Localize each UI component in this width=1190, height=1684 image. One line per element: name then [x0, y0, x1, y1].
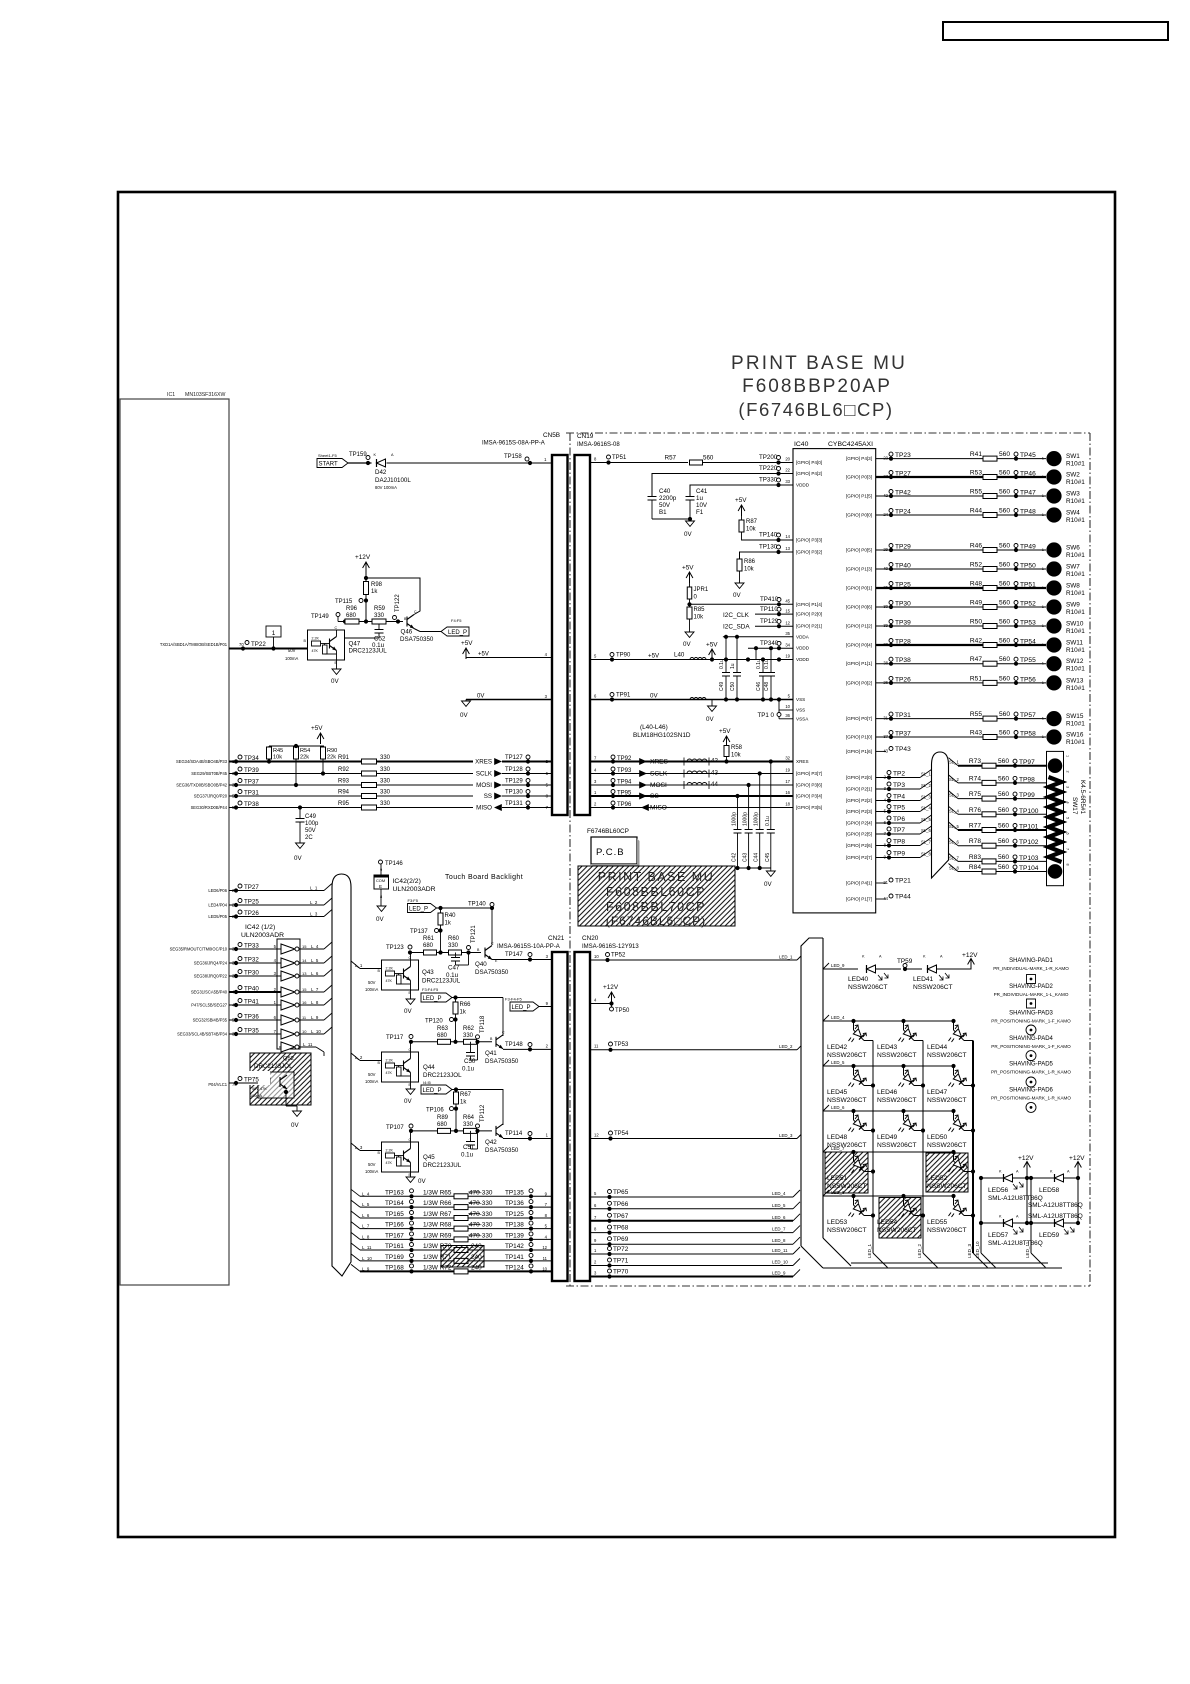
- svg-text:C51: C51: [463, 1144, 475, 1151]
- svg-text:C41: C41: [696, 488, 708, 495]
- svg-text:SCLK: SCLK: [476, 771, 493, 778]
- svg-text:LED_11: LED_11: [772, 1248, 788, 1253]
- LED LED46 NSSW206CT (diagonal): [901, 1064, 905, 1068]
- svg-text:LED_6: LED_6: [831, 1105, 845, 1110]
- svg-text:L_7: L_7: [362, 1224, 370, 1229]
- ground 0V below Q52: [293, 1111, 302, 1116]
- svg-text:TP49: TP49: [1020, 544, 1036, 551]
- svg-text:TP38: TP38: [895, 657, 911, 664]
- svg-text:TP53: TP53: [614, 1042, 629, 1048]
- svg-text:TP33: TP33: [244, 943, 259, 950]
- svg-text:ULN2003ADR: ULN2003ADR: [241, 932, 284, 939]
- row L_10: resistor 1/3W R71 to CN21 pin 11: [351, 1254, 360, 1261]
- svg-text:TP51: TP51: [612, 455, 627, 461]
- svg-text:15: 15: [785, 608, 790, 613]
- svg-text:1k: 1k: [445, 921, 452, 927]
- svg-text:45: 45: [785, 599, 790, 604]
- switch SW2 R10#1: [1046, 469, 1061, 484]
- svg-text:IMSA-9616S-08: IMSA-9616S-08: [577, 442, 620, 448]
- svg-text:43: 43: [711, 770, 718, 777]
- svg-text:TP122: TP122: [395, 594, 401, 612]
- svg-text:15: 15: [302, 944, 307, 949]
- svg-text:C40: C40: [659, 488, 671, 495]
- LED row LED_6: [823, 1105, 829, 1111]
- svg-text:TP103: TP103: [1019, 855, 1039, 862]
- svg-text:Q52: Q52: [283, 1056, 294, 1062]
- emission arrows of LED42: [855, 1025, 867, 1037]
- svg-text:10k: 10k: [744, 567, 755, 573]
- svg-text:C: C: [409, 1138, 412, 1142]
- svg-text:SEG30/RXD0B/P44: SEG30/RXD0B/P44: [191, 805, 228, 810]
- svg-text:NSSW206CT: NSSW206CT: [877, 1142, 917, 1149]
- capacitor C52 0.1u: [378, 624, 380, 629]
- svg-text:470-330: 470-330: [469, 1222, 493, 1229]
- stub L_3 from bus to Q45: [351, 1143, 360, 1151]
- svg-text:330: 330: [380, 767, 391, 773]
- svg-text:TP110: TP110: [760, 606, 778, 613]
- ground 0V below Q47: [336, 660, 338, 669]
- emission arrows of LED51: [855, 1156, 867, 1168]
- row L_8: resistor 1/3W R69 to CN21 pin 4: [351, 1232, 360, 1239]
- svg-text:+5V: +5V: [706, 642, 718, 649]
- svg-text:L_10: L_10: [311, 1029, 321, 1034]
- svg-text:Q43: Q43: [422, 969, 434, 976]
- svg-text:TP70: TP70: [613, 1269, 629, 1276]
- svg-text:0V: 0V: [706, 716, 714, 723]
- svg-text:TP148: TP148: [505, 1042, 523, 1048]
- svg-text:TP142: TP142: [505, 1243, 524, 1250]
- svg-text:[GPIO] P2[3]: [GPIO] P2[3]: [846, 809, 872, 814]
- svg-text:SHAVING-PAD4: SHAVING-PAD4: [1009, 1036, 1053, 1042]
- switch SW4 R10#1: [1046, 507, 1061, 522]
- svg-text:TP93: TP93: [617, 768, 632, 774]
- svg-text:44: 44: [883, 896, 888, 901]
- svg-text:R90: R90: [327, 748, 337, 754]
- row SL_3: resistor R75 560 TP99 to SW17 pin 3: [949, 791, 959, 799]
- svg-text:47K: 47K: [386, 1071, 393, 1075]
- resistor R85 10k: [689, 604, 691, 607]
- svg-text:560: 560: [998, 775, 1009, 782]
- wire CN19 pin 8 TP51 to R57: [590, 462, 688, 464]
- svg-text:F6746BL60CP: F6746BL60CP: [587, 828, 629, 835]
- svg-text:SL_7: SL_7: [949, 855, 959, 860]
- svg-text:R51: R51: [970, 675, 982, 682]
- wire D42 to CN5B pin 1: [387, 462, 553, 464]
- svg-text:C43: C43: [743, 853, 749, 862]
- svg-text:1/3W R69: 1/3W R69: [423, 1232, 452, 1239]
- svg-text:50V: 50V: [305, 828, 316, 834]
- svg-text:1/3W R67: 1/3W R67: [423, 1211, 452, 1218]
- svg-text:14: 14: [302, 958, 307, 963]
- svg-text:ULN2003ADR: ULN2003ADR: [393, 886, 436, 893]
- svg-text:IMSA-9615S-08A-PP-A: IMSA-9615S-08A-PP-A: [482, 441, 545, 447]
- LED58 SML-A12U8TT86Q: [1029, 1176, 1033, 1180]
- svg-text:R10#1: R10#1: [1066, 628, 1085, 635]
- svg-text:SHAVING-PAD2: SHAVING-PAD2: [1009, 984, 1053, 990]
- svg-text:NSSW206CT: NSSW206CT: [927, 1183, 967, 1190]
- svg-text:TP34: TP34: [244, 755, 259, 762]
- svg-text:SL_4: SL_4: [949, 808, 959, 813]
- svg-text:1/3W R66: 1/3W R66: [423, 1200, 452, 1207]
- svg-text:Q40: Q40: [475, 961, 487, 968]
- svg-text:TP410: TP410: [760, 596, 779, 603]
- wire START to D42: [348, 462, 372, 464]
- svg-text:TP6: TP6: [893, 816, 905, 823]
- svg-text:SW6: SW6: [1066, 545, 1080, 552]
- svg-text:LED51: LED51: [827, 1175, 847, 1182]
- svg-text:TP104: TP104: [1019, 865, 1039, 872]
- svg-text:SEG34/SDA4B/SBO4B/P33: SEG34/SDA4B/SBO4B/P33: [176, 759, 228, 764]
- svg-text:22k: 22k: [327, 755, 336, 761]
- svg-text:1000p: 1000p: [754, 812, 760, 826]
- svg-text:680: 680: [423, 943, 434, 949]
- svg-text:TP7: TP7: [893, 827, 905, 834]
- svg-text:[GPIO] P2[4]: [GPIO] P2[4]: [846, 821, 872, 826]
- svg-text:LED_6: LED_6: [772, 1215, 786, 1220]
- svg-text:TP2: TP2: [893, 771, 905, 778]
- svg-text:TP139: TP139: [505, 1232, 524, 1239]
- svg-text:[GPIO] P0[2]: [GPIO] P0[2]: [846, 680, 872, 685]
- svg-text:TP32: TP32: [244, 957, 259, 964]
- resistor R67 1k: [455, 1090, 457, 1093]
- svg-text:+12V: +12V: [962, 952, 978, 959]
- svg-text:R48: R48: [970, 581, 982, 588]
- ground 0V below R85: [685, 632, 694, 637]
- svg-text:10: 10: [302, 1029, 307, 1034]
- svg-text:TP43: TP43: [895, 746, 911, 753]
- svg-text:TP96: TP96: [617, 802, 632, 808]
- svg-text:560: 560: [998, 758, 1009, 765]
- column wires drop into bus collector: [873, 1253, 888, 1268]
- svg-text:TP68: TP68: [613, 1225, 629, 1232]
- base row wire channel 2: [411, 1041, 492, 1043]
- svg-text:SL_2: SL_2: [921, 783, 931, 788]
- svg-text:SML-A12U8TT86Q: SML-A12U8TT86Q: [1028, 1213, 1083, 1220]
- testpoint TP21 IC40 pin 21 stub: [876, 882, 886, 884]
- svg-text:TP36: TP36: [244, 1014, 259, 1021]
- svg-text:10: 10: [785, 704, 790, 709]
- row L_11: resistor 1/3W R70 to CN21 pin 12: [351, 1243, 360, 1250]
- dash-dot boundary of PCB region: [566, 432, 1090, 434]
- svg-text:R78: R78: [969, 838, 981, 845]
- svg-text:R94: R94: [338, 790, 350, 796]
- svg-text:LED_5: LED_5: [831, 1060, 845, 1065]
- svg-text:NSSW206CT: NSSW206CT: [827, 1097, 867, 1104]
- svg-text:TP57: TP57: [1020, 712, 1036, 719]
- svg-text:TP1 0: TP1 0: [757, 712, 774, 719]
- svg-text:SEG38/JRQ0/P22: SEG38/JRQ0/P22: [194, 974, 228, 979]
- svg-text:R55: R55: [970, 489, 982, 496]
- svg-text:L_6: L_6: [362, 1213, 370, 1218]
- svg-text:R43: R43: [970, 730, 982, 737]
- svg-text:TP169: TP169: [385, 1254, 404, 1261]
- testpoint TP44 IC40 pin 44 stub: [876, 898, 886, 900]
- svg-text:LED_4: LED_4: [831, 1015, 845, 1020]
- svg-text:100mA: 100mA: [365, 1169, 378, 1174]
- svg-text:560: 560: [999, 543, 1010, 550]
- svg-text:NSSW206CT: NSSW206CT: [848, 984, 888, 991]
- svg-text:L_1: L_1: [355, 963, 363, 968]
- svg-text:TP121: TP121: [471, 925, 477, 943]
- svg-text:22: 22: [785, 468, 790, 473]
- svg-text:50V: 50V: [252, 1087, 259, 1091]
- svg-text:TP168: TP168: [385, 1264, 404, 1271]
- svg-text:SW11: SW11: [1066, 640, 1083, 647]
- svg-text:R66: R66: [460, 1002, 472, 1008]
- digital transistor Q45 DRC2123JUL: [382, 1142, 419, 1172]
- svg-text:Q41: Q41: [485, 1050, 497, 1057]
- wire CN20 pin 3 TP70 to bus LED_9: [590, 1276, 793, 1278]
- svg-text:34: 34: [785, 642, 790, 647]
- emission arrows of LED52: [955, 1156, 967, 1168]
- svg-text:DRC2123JOL: DRC2123JOL: [423, 1072, 462, 1079]
- svg-text:R47: R47: [970, 656, 982, 663]
- svg-text:P.C.B: P.C.B: [596, 847, 625, 858]
- svg-text:560: 560: [999, 638, 1010, 645]
- svg-text:1/3W R68: 1/3W R68: [423, 1222, 452, 1229]
- ground 0V below Q44: [410, 1082, 412, 1089]
- svg-text:TP112: TP112: [480, 1104, 486, 1122]
- svg-text:12: 12: [542, 1245, 547, 1250]
- signal P04/VLC1 IC1 pin 75: [243, 1071, 270, 1085]
- LED LED44 NSSW206CT (diagonal): [951, 1019, 955, 1023]
- svg-text:LED58: LED58: [1039, 1187, 1059, 1194]
- svg-text:Q46: Q46: [401, 629, 413, 636]
- svg-text:TP127: TP127: [505, 755, 523, 761]
- svg-text:[GPIO] P0[4]: [GPIO] P0[4]: [846, 643, 872, 648]
- svg-text:R10#1: R10#1: [1066, 647, 1085, 654]
- emission arrows of LED49: [905, 1115, 917, 1127]
- svg-text:[GPIO] P4[3]: [GPIO] P4[3]: [846, 456, 872, 461]
- svg-text:R50: R50: [970, 619, 982, 626]
- switch SW13 R10#1: [1046, 675, 1061, 690]
- svg-text:LED_8: LED_8: [772, 1238, 786, 1243]
- svg-text:0V: 0V: [684, 531, 692, 538]
- svg-text:LED49: LED49: [877, 1134, 897, 1141]
- svg-text:LED59: LED59: [1039, 1232, 1059, 1239]
- svg-text:P47/SCL5B/SEG27: P47/SCL5B/SEG27: [191, 1003, 227, 1008]
- svg-text:R73: R73: [969, 758, 981, 765]
- svg-text:XRES: XRES: [650, 759, 669, 766]
- bus: touch board backlight bus (vertical): [332, 874, 351, 1276]
- svg-text:SEG35/RMOUTC/TM0IOC/P10: SEG35/RMOUTC/TM0IOC/P10: [170, 947, 228, 952]
- buffer gate L_7: [281, 987, 295, 997]
- svg-text:L_2: L_2: [355, 1055, 363, 1060]
- svg-text:PRINT BASE MU: PRINT BASE MU: [731, 353, 907, 374]
- svg-text:560: 560: [999, 675, 1010, 682]
- svg-text:1000p: 1000p: [732, 812, 738, 826]
- svg-text:VSS: VSS: [796, 708, 805, 713]
- svg-text:TP131: TP131: [505, 801, 523, 807]
- switch SW16 R10#1: [1046, 729, 1061, 744]
- wire Q46 emitter to LED_P flag: [414, 629, 420, 632]
- svg-text:SHAVING-PAD1: SHAVING-PAD1: [1009, 958, 1053, 964]
- svg-text:TP42: TP42: [895, 490, 911, 497]
- svg-text:2: 2: [1066, 771, 1070, 773]
- svg-text:P04/VLC1: P04/VLC1: [208, 1082, 227, 1087]
- svg-text:R45: R45: [273, 748, 283, 754]
- svg-text:560: 560: [999, 581, 1010, 588]
- svg-text:[GPIO] P0[1]: [GPIO] P0[1]: [846, 586, 872, 591]
- svg-text:TP37: TP37: [244, 779, 259, 786]
- svg-text:NSSW206CT: NSSW206CT: [877, 1097, 917, 1104]
- svg-text:+5V: +5V: [682, 565, 694, 572]
- svg-text:1k: 1k: [371, 589, 378, 595]
- decoupling capacitors C46 C48 0.1u: [762, 660, 764, 673]
- svg-text:TP52: TP52: [1020, 601, 1036, 608]
- emission arrows of LED46: [905, 1070, 917, 1082]
- svg-text:TP330: TP330: [759, 477, 778, 484]
- svg-text:LED_7: LED_7: [772, 1227, 786, 1232]
- svg-text:560: 560: [999, 730, 1010, 737]
- svg-text:TP46: TP46: [1020, 471, 1036, 478]
- LED59 SML-A12U8TT86Q: [1029, 1221, 1033, 1225]
- svg-text:LED43: LED43: [877, 1044, 897, 1051]
- capacitor C50 0.1u: [470, 1042, 472, 1052]
- svg-text:0.1u: 0.1u: [756, 659, 762, 669]
- svg-text:IMSA-9615S-10A-PP-A: IMSA-9615S-10A-PP-A: [497, 944, 560, 950]
- svg-text:R83: R83: [969, 854, 981, 861]
- svg-text:NSSW206CT: NSSW206CT: [927, 1097, 967, 1104]
- svg-text:Q47: Q47: [349, 641, 361, 648]
- svg-text:TP55: TP55: [1020, 657, 1036, 664]
- hatched deleted-part box over R70/R71: [441, 1246, 484, 1268]
- svg-text:L_11: L_11: [362, 1245, 372, 1250]
- digital transistor Q47 DRC2123JUL: [308, 630, 345, 660]
- svg-text:VDDD: VDDD: [796, 483, 810, 488]
- svg-text:TP22: TP22: [251, 641, 266, 648]
- emission arrows of LED53: [855, 1200, 867, 1212]
- svg-text:TP128: TP128: [505, 767, 523, 773]
- svg-text:I2C_CLK: I2C_CLK: [723, 612, 750, 619]
- svg-text:14: 14: [785, 534, 790, 539]
- horizontal bus collector lines: [823, 1267, 1062, 1269]
- svg-text:Q44: Q44: [423, 1064, 435, 1071]
- svg-text:SW1: SW1: [1066, 453, 1080, 460]
- svg-text:R10#1: R10#1: [1066, 609, 1085, 616]
- svg-text:18: 18: [785, 802, 790, 807]
- svg-text:TP58: TP58: [1020, 731, 1036, 738]
- svg-text:CN19: CN19: [577, 433, 594, 440]
- svg-text:LED44: LED44: [927, 1044, 947, 1051]
- svg-text:PRINT BASE MU: PRINT BASE MU: [598, 870, 715, 884]
- svg-text:100mA: 100mA: [365, 987, 378, 992]
- svg-text:SW3: SW3: [1066, 491, 1080, 498]
- switch SW12 R10#1: [1046, 656, 1061, 671]
- svg-text:R10#1: R10#1: [1066, 739, 1085, 746]
- svg-text:2.2K: 2.2K: [386, 1059, 394, 1063]
- buffer gate L_4: [281, 944, 295, 954]
- svg-text:R10#1: R10#1: [1066, 517, 1085, 524]
- svg-text:L_8: L_8: [362, 1234, 370, 1239]
- svg-text:1: 1: [1066, 755, 1070, 757]
- svg-text:[GPIO] P0[7]: [GPIO] P0[7]: [846, 716, 872, 721]
- svg-text:SL_3: SL_3: [921, 795, 931, 800]
- svg-text:TP101: TP101: [1019, 824, 1039, 831]
- capacitor C41 1u 10V F1: [686, 497, 695, 501]
- svg-text:R93: R93: [338, 779, 350, 785]
- svg-text:R67: R67: [460, 1092, 472, 1098]
- svg-text:NSSW206CT: NSSW206CT: [827, 1183, 867, 1190]
- svg-text:44: 44: [711, 781, 718, 788]
- inductor L42: [687, 759, 707, 762]
- svg-text:R10#1: R10#1: [1066, 498, 1085, 505]
- svg-text:SW16: SW16: [1066, 732, 1084, 739]
- svg-text:L_2: L_2: [310, 900, 318, 905]
- svg-text:I4:I5: I4:I5: [423, 1080, 432, 1085]
- svg-text:R64: R64: [463, 1115, 475, 1121]
- svg-text:SEG36/TXD0B/SBO0B/P42: SEG36/TXD0B/SBO0B/P42: [176, 783, 227, 788]
- svg-text:DSA750350: DSA750350: [485, 1147, 519, 1154]
- svg-text:R76: R76: [969, 807, 981, 814]
- row L_7: resistor 1/3W R68 to CN21 pin 5: [351, 1222, 360, 1229]
- svg-text:LED_1: LED_1: [867, 1244, 872, 1258]
- resistor R66 1k: [455, 998, 457, 1003]
- testpoint TP38: [238, 801, 242, 805]
- svg-text:CN20: CN20: [582, 935, 599, 942]
- svg-text:560: 560: [999, 619, 1010, 626]
- svg-text:R98: R98: [371, 582, 383, 588]
- svg-text:LED47: LED47: [927, 1089, 947, 1096]
- svg-text:TP114: TP114: [505, 1131, 523, 1137]
- svg-text:CYBC4245AXI: CYBC4245AXI: [828, 441, 873, 448]
- digital transistor Q44 DRC2123JUL: [382, 1052, 419, 1082]
- svg-text:LED50: LED50: [927, 1134, 947, 1141]
- svg-text:LED_7: LED_7: [831, 1146, 845, 1151]
- svg-text:NSSW206CT: NSSW206CT: [877, 1227, 917, 1234]
- svg-text:+5V: +5V: [311, 725, 323, 732]
- page border frame: [118, 192, 1115, 1537]
- svg-text:IC42 (1/2): IC42 (1/2): [245, 924, 275, 931]
- svg-text:F3:F5: F3:F5: [408, 898, 419, 903]
- svg-text:100p: 100p: [305, 821, 319, 827]
- buffer gate L_10: [281, 1029, 295, 1039]
- emission arrows of LED45: [855, 1070, 867, 1082]
- svg-text:[GPIO] P2[0]: [GPIO] P2[0]: [796, 612, 822, 617]
- svg-text:SML-A12U8TT86Q: SML-A12U8TT86Q: [1028, 1202, 1083, 1209]
- svg-text:TP25: TP25: [895, 582, 911, 589]
- svg-text:TP4: TP4: [893, 794, 905, 801]
- svg-text:L_11: L_11: [303, 1042, 313, 1047]
- wire VDDA rail IC40 pin 35: [723, 636, 793, 638]
- LED row LED_5: [823, 1060, 829, 1066]
- capacitor C49 100p 50V 2C: [299, 808, 301, 819]
- svg-text:560: 560: [999, 451, 1010, 458]
- svg-text:[GPIO] P0[0]: [GPIO] P0[0]: [846, 513, 872, 518]
- svg-text:NSSW206CT: NSSW206CT: [927, 1227, 967, 1234]
- wire CN19 pin 7 TP92 XRES to IC40 pin 32: [590, 761, 793, 763]
- svg-text:SL_1: SL_1: [921, 772, 931, 777]
- svg-text:TP165: TP165: [385, 1211, 404, 1218]
- LED LED53 NSSW206CT (diagonal): [851, 1194, 855, 1198]
- svg-text:[GPIO] P0[6]: [GPIO] P0[6]: [846, 605, 872, 610]
- wire CN19 pin 3 TP94 MOSI to IC40 pin 17: [590, 784, 793, 786]
- svg-text:70: 70: [239, 642, 244, 647]
- svg-text:C: C: [335, 626, 338, 630]
- svg-text:TP147: TP147: [505, 952, 523, 958]
- svg-text:MOSI: MOSI: [476, 782, 492, 789]
- svg-text:33: 33: [785, 479, 790, 484]
- svg-text:LED57: LED57: [988, 1232, 1008, 1239]
- svg-text:VSS: VSS: [796, 697, 805, 702]
- row SL_4: resistor R76 560 TP100 to SW17 pin 4: [949, 806, 959, 814]
- svg-text:TP140: TP140: [468, 902, 486, 908]
- row L_9: resistor 1/3W R72 to CN21 pin 10: [351, 1264, 360, 1271]
- LED LED52 NSSW206CT (diagonal): [951, 1150, 955, 1154]
- svg-text:SL_8: SL_8: [921, 852, 931, 857]
- switch SW3 R10#1: [1046, 488, 1061, 503]
- svg-text:DA2J10100L: DA2J10100L: [375, 477, 411, 484]
